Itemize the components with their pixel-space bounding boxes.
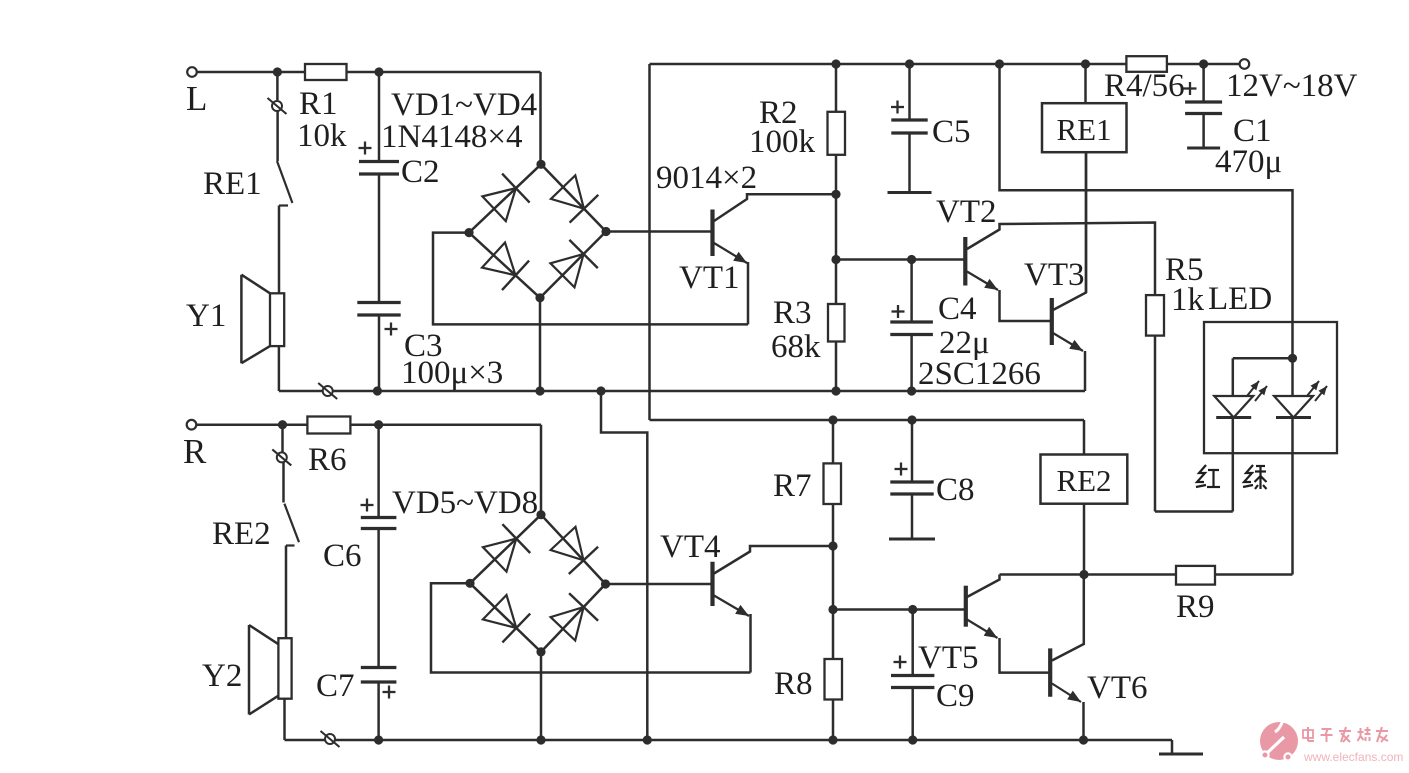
svg-text:C6: C6	[323, 538, 362, 574]
svg-text:2SC1266: 2SC1266	[918, 356, 1041, 392]
svg-text:Y2: Y2	[202, 658, 242, 694]
svg-text:10k: 10k	[297, 118, 347, 154]
svg-text:R6: R6	[308, 442, 347, 478]
svg-text:RE2: RE2	[1056, 463, 1111, 498]
svg-text:1N4148×4: 1N4148×4	[381, 119, 522, 155]
svg-text:VT2: VT2	[936, 194, 997, 230]
svg-text:1k: 1k	[1171, 282, 1205, 318]
svg-text:VT5: VT5	[918, 640, 979, 676]
svg-text:R8: R8	[774, 666, 813, 702]
svg-text:R4/56: R4/56	[1104, 68, 1185, 104]
svg-text:100μ×3: 100μ×3	[401, 355, 503, 391]
svg-text:LED: LED	[1208, 281, 1272, 317]
svg-text:VT4: VT4	[660, 529, 721, 565]
svg-text:R: R	[183, 432, 207, 471]
svg-text:R3: R3	[773, 295, 812, 331]
svg-text:Y1: Y1	[186, 298, 226, 334]
svg-text:C7: C7	[316, 668, 355, 704]
svg-text:C5: C5	[932, 114, 971, 150]
svg-text:R1: R1	[299, 86, 338, 122]
svg-text:VD5~VD8: VD5~VD8	[392, 485, 538, 521]
svg-text:R7: R7	[773, 468, 812, 504]
svg-text:VD1~VD4: VD1~VD4	[391, 87, 537, 123]
svg-text:68k: 68k	[771, 329, 821, 365]
svg-text:RE2: RE2	[212, 516, 271, 552]
svg-text:C2: C2	[401, 154, 440, 190]
svg-text:VT1: VT1	[679, 260, 740, 296]
svg-text:www.elecfans.com: www.elecfans.com	[1303, 750, 1403, 764]
svg-text:R9: R9	[1176, 589, 1215, 625]
svg-text:RE1: RE1	[1056, 112, 1111, 147]
svg-text:100k: 100k	[749, 124, 816, 160]
svg-text:L: L	[186, 79, 207, 118]
svg-text:9014×2: 9014×2	[656, 160, 757, 196]
svg-text:C8: C8	[936, 472, 975, 508]
svg-text:C4: C4	[938, 291, 977, 327]
svg-text:12V~18V: 12V~18V	[1226, 68, 1358, 104]
svg-text:VT3: VT3	[1024, 257, 1085, 293]
svg-text:RE1: RE1	[203, 166, 262, 202]
svg-text:VT6: VT6	[1087, 670, 1148, 706]
svg-text:C9: C9	[936, 678, 975, 714]
svg-text:470μ: 470μ	[1215, 144, 1282, 180]
